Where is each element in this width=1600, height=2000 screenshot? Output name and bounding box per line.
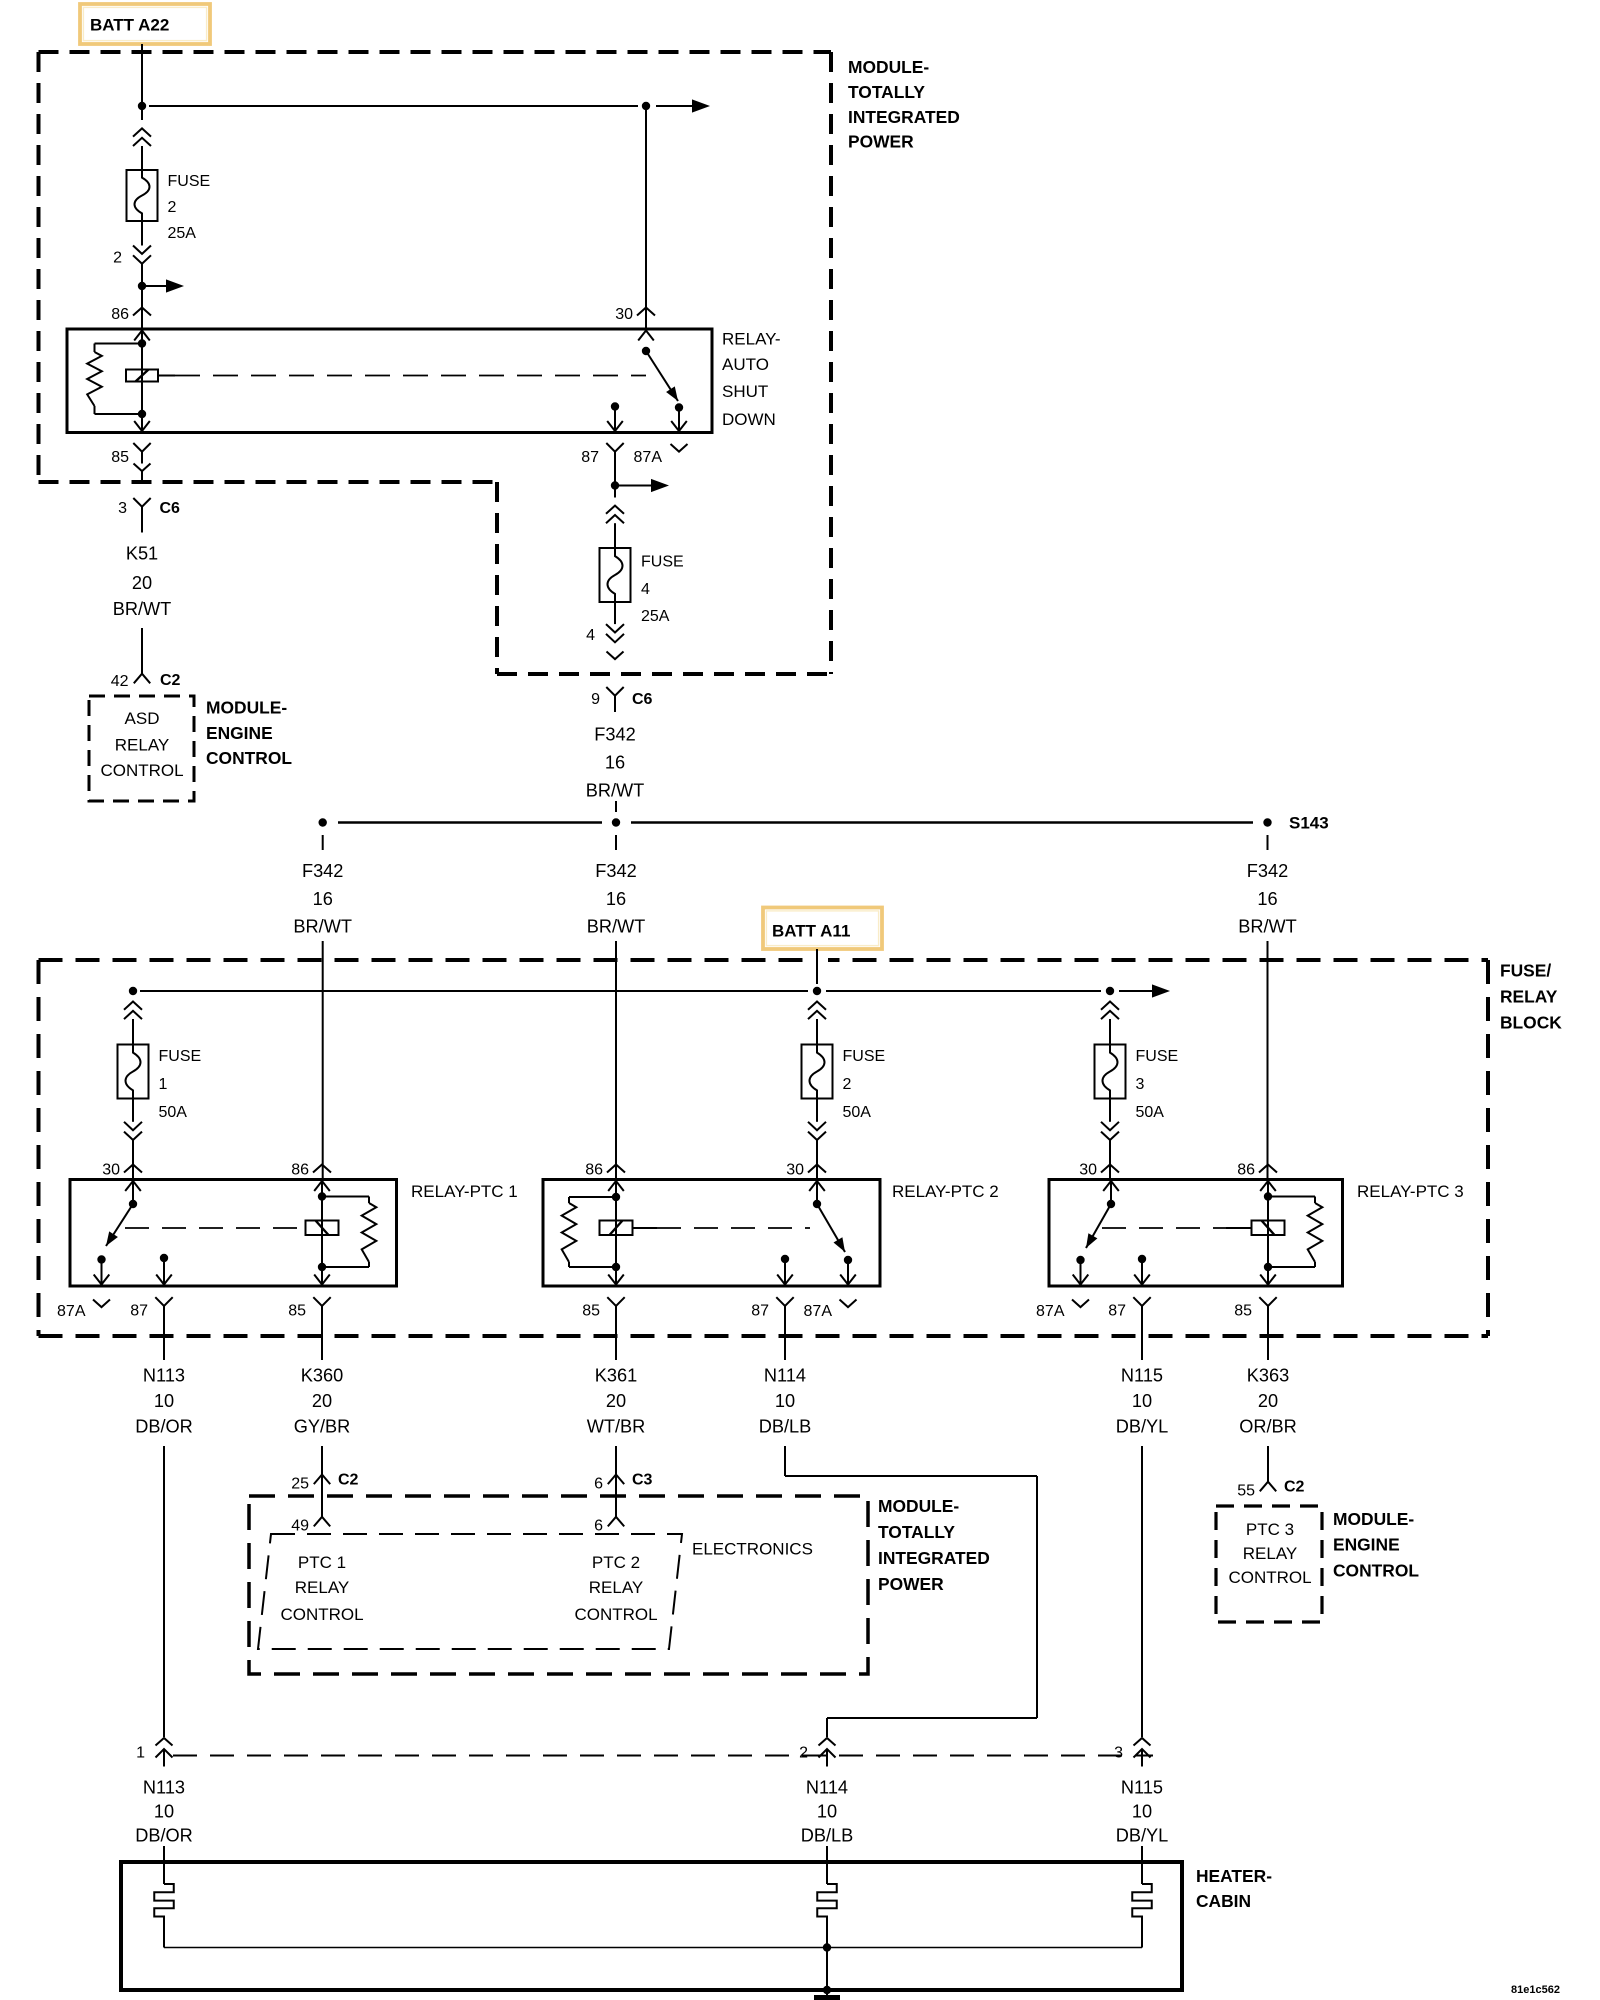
wire K363 to C2 (1267, 1446, 1269, 1482)
wire right branch to relay 3 pin 86 (1267, 941, 1269, 1180)
fuse terminal double chevron (bottom of FUSE 4) (606, 624, 624, 632)
svg-text:DB/OR: DB/OR (135, 1417, 193, 1437)
svg-text:MODULE-: MODULE- (206, 697, 287, 717)
svg-text:2: 2 (799, 1744, 808, 1761)
relay RELAY-PTC 3 (box) (1049, 1180, 1343, 1287)
svg-text:20: 20 (132, 573, 152, 593)
fuse FUSE 3 50A (1095, 1045, 1126, 1099)
wire stub below right splice (1267, 835, 1269, 850)
module boundary - FUSE/RELAY BLOCK (dashed box) (39, 958, 1489, 962)
wire chevron to fuse 4 (614, 523, 616, 548)
relay2 coil resistor (parallel) (569, 1196, 616, 1198)
svg-text:WT/BR: WT/BR (587, 1417, 646, 1437)
svg-text:85: 85 (582, 1302, 600, 1319)
relay1 coil (306, 1221, 339, 1236)
wire relay2 87A to pin (847, 1260, 849, 1286)
svg-text:POWER: POWER (848, 131, 914, 151)
svg-text:10: 10 (154, 1802, 174, 1822)
fuse terminal double chevron (top of block FUSE 2) (808, 1002, 826, 1010)
wire N114 routed to connector (784, 1446, 786, 1476)
wire chevron to fuse 2 (816, 1019, 818, 1045)
wire drop to ASD relay pin 30 (645, 110, 647, 329)
wire chevron to fuse 3 (1109, 1019, 1111, 1045)
arrow continuation right (top bus) (692, 99, 710, 112)
svg-text:16: 16 (606, 889, 626, 909)
svg-text:25A: 25A (168, 225, 197, 242)
relay pin 87 connector fork (155, 1297, 172, 1306)
fuse terminal double chevron (bottom of block FUSE 2) (808, 1122, 826, 1130)
connector pin 49 (TIPM) (314, 1517, 330, 1527)
svg-text:K51: K51 (126, 544, 158, 564)
svg-text:4: 4 (586, 627, 595, 644)
junction node 87 contact (611, 402, 619, 410)
svg-text:TOTALLY: TOTALLY (848, 82, 925, 102)
junction node relay3 coil bottom (1264, 1263, 1272, 1271)
relay2 switch arm 30->87A (817, 1204, 845, 1252)
relay pin 87A connector chevron (1072, 1300, 1089, 1308)
pin 30 connector chevron (637, 308, 655, 316)
connector pin 6 (TIPM) (608, 1517, 624, 1527)
connector pin 3 (heater connector) (1134, 1738, 1151, 1746)
relay pin 87A connector chevron (93, 1300, 110, 1308)
svg-text:C6: C6 (160, 500, 181, 517)
junction node on pin 86 wire (138, 282, 146, 290)
svg-text:87A: 87A (804, 1303, 833, 1320)
svg-text:GY/BR: GY/BR (294, 1417, 351, 1437)
svg-text:25A: 25A (641, 608, 670, 625)
relay pin 87 connector fork (776, 1297, 793, 1306)
pin 30 connector chevron (relay PTC) (124, 1165, 142, 1173)
relay3 mechanical link (dashed) (1102, 1227, 1226, 1229)
relay pin 85 connector fork (313, 1297, 330, 1306)
svg-text:50A: 50A (1136, 1104, 1165, 1121)
wire chevron to relay pin 30 (1109, 1140, 1111, 1180)
wire stub below left splice (322, 835, 324, 850)
relay RELAY-PTC 2 (box) (543, 1180, 880, 1287)
pin 85 connector fork (133, 443, 150, 452)
fuse FUSE 4 25A (600, 548, 631, 602)
node ELECTRONICS (dashed outline) (258, 1534, 682, 1649)
pin 85 arrow (inside) (134, 421, 150, 431)
svg-text:F342: F342 (595, 861, 636, 881)
svg-text:1: 1 (136, 1744, 145, 1761)
pin 87 arrow (inside) (607, 421, 623, 431)
svg-text:86: 86 (1237, 1161, 1255, 1178)
svg-text:RELAY: RELAY (589, 1578, 644, 1597)
fuse terminal double chevron (bottom of block FUSE 1) (124, 1122, 142, 1130)
relay mechanical link (dashed) (158, 375, 175, 377)
pin 30 connector chevron (relay PTC) (1101, 1165, 1119, 1173)
wire N113 to heater element (163, 1846, 165, 1884)
module boundary chevron (fuse 4 output) (607, 652, 624, 660)
svg-text:RELAY-: RELAY- (722, 330, 781, 349)
svg-text:6: 6 (594, 1517, 603, 1534)
wire stub to arrow (142, 285, 166, 287)
pin 86 connector chevron (133, 308, 151, 316)
wire block feed bus (140, 990, 808, 992)
svg-text:FUSE: FUSE (1136, 1048, 1179, 1065)
node BATT A22 (battery feed label) (80, 4, 210, 44)
wire N115 to heater element (1141, 1846, 1143, 1884)
wire N115 down to connector (1141, 1446, 1143, 1737)
svg-text:87: 87 (1108, 1302, 1126, 1319)
svg-text:N115: N115 (1121, 1778, 1163, 1798)
relay switch arm 30->87A (646, 351, 678, 401)
fuse terminal double chevron (top of block FUSE 3) (1101, 1002, 1119, 1010)
junction node fuse 3 feed (1106, 987, 1114, 995)
svg-text:BR/WT: BR/WT (587, 917, 646, 937)
pin 87 connector fork (606, 443, 623, 452)
fuse FUSE 2 25A (127, 170, 158, 221)
wire K51 to module ASD control (141, 628, 143, 674)
svg-text:K361: K361 (595, 1366, 637, 1386)
svg-text:85: 85 (1234, 1302, 1252, 1319)
connector C6 pin 9 (606, 687, 623, 696)
pin 86 connector chevron (relay PTC) (1259, 1165, 1277, 1173)
svg-text:87A: 87A (634, 449, 663, 466)
heater element 1 (154, 1884, 174, 1948)
fuse terminal double chevron (top of block FUSE 1) (124, 1002, 142, 1010)
splice node S143 (1263, 818, 1271, 826)
wire chevron to fuse 1 (132, 1019, 134, 1045)
arrow continuation right (87 output) (651, 479, 669, 492)
fuse terminal double chevron (bottom of FUSE 2) (133, 246, 151, 254)
svg-text:9: 9 (591, 691, 600, 708)
relay pin 87A connector chevron (840, 1300, 857, 1308)
svg-text:RELAY-PTC 2: RELAY-PTC 2 (892, 1182, 999, 1201)
svg-text:86: 86 (585, 1161, 603, 1178)
relay2 coil (600, 1221, 633, 1236)
svg-text:BR/WT: BR/WT (586, 781, 645, 801)
wire chevron to fuse 2 (141, 146, 143, 170)
svg-text:CONTROL: CONTROL (206, 748, 292, 768)
svg-text:RELAY: RELAY (295, 1578, 350, 1597)
svg-text:OR/BR: OR/BR (1239, 1417, 1297, 1437)
pin 85 boundary chevron (134, 464, 151, 472)
relay3 coil (1252, 1221, 1285, 1236)
wire fuse 4 to chevron (614, 602, 616, 624)
module boundary - MODULE-TOTALLY INTEGRATED POWER (dashed box) (39, 50, 832, 54)
connector C3 pin 6 (608, 1475, 624, 1485)
wire relay coil pin 86 to 85 (vertical) (141, 329, 143, 433)
junction node relay2 pivot (813, 1200, 821, 1208)
relay2 mechanical link (dashed) (633, 1227, 657, 1229)
svg-text:CABIN: CABIN (1196, 1891, 1251, 1911)
svg-text:RELAY: RELAY (1243, 1544, 1298, 1563)
svg-text:10: 10 (1132, 1391, 1152, 1411)
svg-text:87: 87 (581, 449, 599, 466)
pin 87A arrow (inside) (671, 421, 687, 431)
wire fuse 3 to chevron (1109, 1099, 1111, 1122)
svg-text:30: 30 (1079, 1161, 1097, 1178)
svg-text:10: 10 (775, 1391, 795, 1411)
connector C2 pin 42 (134, 674, 150, 684)
junction node relay1 87 contact (160, 1254, 168, 1262)
wire 87A contact to pin (678, 408, 680, 433)
svg-text:10: 10 (154, 1391, 174, 1411)
wire C3 to TIPM pin 6 (615, 1475, 617, 1517)
svg-text:42: 42 (111, 673, 129, 690)
fuse FUSE 2 50A (802, 1045, 833, 1099)
pin 30 arrow (inside) (638, 331, 654, 341)
junction node fuse 1 feed (129, 987, 137, 995)
pin 87 fork stem (614, 452, 616, 498)
wire fuse 2 to chevron (816, 1099, 818, 1122)
module boundary - MODULE-TOTALLY INTEGRATED POWER bottom (dashed box) (249, 1496, 868, 1674)
pin 30 connector chevron (relay PTC) (808, 1165, 826, 1173)
fuse FUSE 1 50A (118, 1045, 149, 1099)
svg-text:N114: N114 (764, 1366, 806, 1386)
svg-text:86: 86 (111, 306, 129, 323)
wire C2 to TIPM pin 49 (321, 1475, 323, 1517)
wire relay3 87 to pin (1141, 1259, 1143, 1286)
wire relay1 coil 86-85 (321, 1180, 323, 1287)
relay RELAY-AUTO SHUT DOWN (box) (67, 329, 712, 433)
svg-text:BR/WT: BR/WT (293, 917, 352, 937)
svg-text:BATT A22: BATT A22 (90, 16, 169, 35)
relay coil resistor (parallel) - ASD (95, 343, 143, 345)
svg-text:BATT A11: BATT A11 (772, 922, 850, 941)
wire K360 to C2 (321, 1446, 323, 1475)
svg-text:N114: N114 (806, 1778, 848, 1798)
junction node coil top (138, 339, 146, 347)
svg-text:2: 2 (113, 249, 122, 266)
svg-text:50A: 50A (843, 1104, 872, 1121)
relay pin 85 connector fork (1259, 1297, 1276, 1306)
svg-text:2: 2 (168, 199, 177, 216)
splice node S143 middle (612, 818, 620, 826)
svg-text:DOWN: DOWN (722, 410, 776, 429)
junction node coil bottom (138, 410, 146, 418)
junction node switch pivot (642, 347, 650, 355)
junction node relay1 coil top (318, 1192, 326, 1200)
svg-text:DB/YL: DB/YL (1116, 1417, 1169, 1437)
svg-text:C3: C3 (632, 1471, 653, 1488)
arrow continuation right (block feed) (1152, 984, 1170, 997)
wire relay2 coil 86-85 (615, 1180, 617, 1287)
svg-text:F342: F342 (594, 725, 635, 745)
svg-text:10: 10 (817, 1802, 837, 1822)
svg-text:DB/YL: DB/YL (1116, 1826, 1169, 1846)
junction node relay3 87A contact (1076, 1256, 1084, 1264)
svg-text:F342: F342 (1247, 861, 1288, 881)
svg-text:30: 30 (615, 306, 633, 323)
svg-text:50A: 50A (159, 1104, 188, 1121)
svg-text:C2: C2 (160, 672, 181, 689)
svg-text:BR/WT: BR/WT (113, 599, 172, 619)
connector pin 1 (heater connector) (156, 1738, 173, 1746)
wire relay2 pin30 (816, 1180, 818, 1205)
wire N114 to heater element (826, 1846, 828, 1884)
svg-text:N113: N113 (143, 1778, 185, 1798)
svg-text:FUSE: FUSE (168, 173, 211, 190)
junction node relay2 87 contact (781, 1255, 789, 1263)
wire relay1 87 to pin (163, 1258, 165, 1286)
relay1 mechanical link (dashed) (125, 1227, 306, 1229)
svg-text:C2: C2 (338, 1471, 359, 1488)
junction node relay2 87A contact (844, 1256, 852, 1264)
relay3 coil resistor (parallel) (1268, 1196, 1315, 1198)
svg-text:C2: C2 (1284, 1478, 1305, 1495)
svg-text:S143: S143 (1289, 814, 1329, 833)
svg-text:INTEGRATED: INTEGRATED (848, 107, 960, 127)
wire relay1 87A to pin (101, 1260, 103, 1287)
svg-text:N115: N115 (1121, 1366, 1163, 1386)
junction node BATT A11 tap (813, 987, 821, 995)
junction node relay2 coil top (612, 1193, 620, 1201)
svg-text:86: 86 (291, 1161, 309, 1178)
svg-text:F342: F342 (302, 861, 343, 881)
relay pin 87 connector fork (1133, 1297, 1150, 1306)
heater element 2 (817, 1884, 837, 1948)
svg-text:87A: 87A (1036, 1303, 1065, 1320)
svg-text:DB/LB: DB/LB (801, 1826, 854, 1846)
wire BATT A11 feed (816, 949, 818, 984)
svg-text:HEATER-: HEATER- (1196, 1866, 1272, 1886)
svg-text:CONTROL: CONTROL (574, 1605, 657, 1624)
pin 86 arrow (inside) (134, 331, 150, 341)
svg-text:10: 10 (1132, 1802, 1152, 1822)
svg-text:20: 20 (1258, 1391, 1278, 1411)
wire stub below middle splice (615, 835, 617, 850)
svg-text:K363: K363 (1247, 1366, 1289, 1386)
svg-text:FUSE: FUSE (843, 1048, 886, 1065)
junction node relay3 coil top (1264, 1192, 1272, 1200)
wire K361 to C3 (615, 1446, 617, 1475)
wire N113 down to connector (163, 1446, 165, 1737)
wire relay1 pin30 (132, 1180, 134, 1205)
node ASD RELAY CONTROL (dashed box) (89, 696, 194, 801)
svg-text:30: 30 (102, 1161, 120, 1178)
svg-text:CONTROL: CONTROL (1228, 1568, 1311, 1587)
svg-text:16: 16 (313, 889, 333, 909)
junction node heater common (823, 1943, 831, 1951)
fuse terminal double chevron (bottom of block FUSE 3) (1101, 1122, 1119, 1130)
svg-text:3: 3 (118, 500, 127, 517)
relay RELAY-PTC 1 (box) (70, 1180, 397, 1287)
svg-text:87: 87 (751, 1302, 769, 1319)
svg-text:SHUT: SHUT (722, 382, 768, 401)
svg-text:1: 1 (159, 1076, 168, 1093)
svg-text:FUSE: FUSE (159, 1048, 202, 1065)
svg-text:16: 16 (1257, 889, 1277, 909)
connector C2 pin 55 (1260, 1482, 1276, 1492)
svg-text:FUSE: FUSE (641, 553, 684, 570)
svg-text:N113: N113 (143, 1366, 185, 1386)
wire bus to relay pin 30 (149, 105, 638, 107)
svg-text:DB/OR: DB/OR (135, 1826, 193, 1846)
heater element 3 (1132, 1884, 1152, 1948)
svg-text:FUSE/: FUSE/ (1500, 960, 1551, 980)
svg-text:CONTROL: CONTROL (100, 761, 183, 780)
svg-text:POWER: POWER (878, 1574, 944, 1594)
splice node S143 left (319, 818, 327, 826)
svg-text:87: 87 (130, 1302, 148, 1319)
wire splice bus S143 (338, 821, 602, 823)
junction node relay3 pivot (1107, 1200, 1115, 1208)
wire middle branch to relay 2 pin 86 (615, 941, 617, 1180)
junction node relay1 coil bottom (318, 1263, 326, 1271)
junction node relay1 pivot (129, 1200, 137, 1208)
pin 86 connector chevron (relay PTC) (313, 1165, 331, 1173)
svg-text:30: 30 (786, 1161, 804, 1178)
svg-text:87A: 87A (57, 1303, 86, 1320)
ground (814, 1995, 840, 2000)
svg-text:TOTALLY: TOTALLY (878, 1522, 955, 1542)
svg-text:AUTO: AUTO (722, 355, 769, 374)
junction node at pin 30 drop (642, 102, 650, 110)
svg-text:ENGINE: ENGINE (1333, 1534, 1400, 1554)
svg-text:55: 55 (1237, 1482, 1255, 1499)
wire relay3 87A to pin (1080, 1260, 1082, 1286)
relay pin 85 connector fork (607, 1297, 624, 1306)
wire chevron to relay pin 30 (132, 1140, 134, 1180)
wire chevron to relay pin 30 (816, 1140, 818, 1180)
wire relay3 coil 86-85 (1267, 1180, 1269, 1287)
component HEATER-CABIN (box) (121, 1862, 1182, 1990)
fuse terminal double chevron (top of FUSE 4) (606, 506, 624, 514)
fuse terminal double chevron (top of FUSE 2) (133, 128, 151, 136)
svg-text:DB/LB: DB/LB (759, 1417, 812, 1437)
wire fuse 1 to chevron (132, 1099, 134, 1122)
node BATT A11 (battery feed label) (763, 908, 882, 950)
wire stub BR/WT to splice (615, 801, 617, 812)
svg-text:INTEGRATED: INTEGRATED (878, 1548, 990, 1568)
junction node relay3 87 contact (1138, 1255, 1146, 1263)
junction node at BATT A22 feed (138, 102, 146, 110)
node PTC 3 RELAY CONTROL (dashed box) (1216, 1506, 1322, 1622)
wire relay3 pin30 (1110, 1180, 1112, 1205)
junction node relay1 87A contact (97, 1255, 105, 1263)
junction node 87 output (611, 481, 619, 489)
junction node relay2 coil bottom (612, 1263, 620, 1271)
svg-text:RELAY-PTC 3: RELAY-PTC 3 (1357, 1182, 1464, 1201)
svg-text:85: 85 (111, 449, 129, 466)
wire element 2 to ground (826, 1948, 828, 1997)
svg-text:PTC 1: PTC 1 (298, 1553, 346, 1572)
svg-text:C6: C6 (632, 691, 653, 708)
relay1 switch arm 30->87A (106, 1204, 133, 1246)
connector pin 2 (heater connector) (819, 1738, 836, 1746)
svg-text:MODULE-: MODULE- (1333, 1509, 1414, 1529)
connector C2 pin 25 (314, 1475, 330, 1485)
svg-text:PTC 2: PTC 2 (592, 1553, 640, 1572)
svg-text:CONTROL: CONTROL (1333, 1560, 1419, 1580)
svg-text:6: 6 (594, 1475, 603, 1492)
svg-text:RELAY: RELAY (1500, 986, 1558, 1006)
svg-text:20: 20 (606, 1391, 626, 1411)
svg-text:81e1c562: 81e1c562 (1511, 1984, 1560, 1996)
svg-text:3: 3 (1114, 1744, 1123, 1761)
connector C6 pin 3 (133, 498, 150, 507)
svg-text:25: 25 (291, 1475, 309, 1492)
svg-text:ENGINE: ENGINE (206, 723, 273, 743)
wire left branch to relay 1 pin 86 (322, 941, 324, 1180)
wire BATT A22 to fuse 2 (141, 44, 143, 120)
junction node 87A contact (675, 403, 683, 411)
svg-text:ELECTRONICS: ELECTRONICS (692, 1540, 813, 1559)
svg-text:BR/WT: BR/WT (1238, 917, 1297, 937)
svg-text:MODULE-: MODULE- (878, 1496, 959, 1516)
wire relay2 87 to pin (784, 1259, 786, 1286)
svg-text:2: 2 (843, 1076, 852, 1093)
wire 87 contact to pin (614, 407, 616, 433)
svg-text:ASD: ASD (125, 709, 160, 728)
relay coil - ASD (126, 370, 158, 382)
svg-text:RELAY: RELAY (115, 736, 170, 755)
wire heater common (164, 1947, 1142, 1949)
svg-text:MODULE-: MODULE- (848, 57, 929, 77)
